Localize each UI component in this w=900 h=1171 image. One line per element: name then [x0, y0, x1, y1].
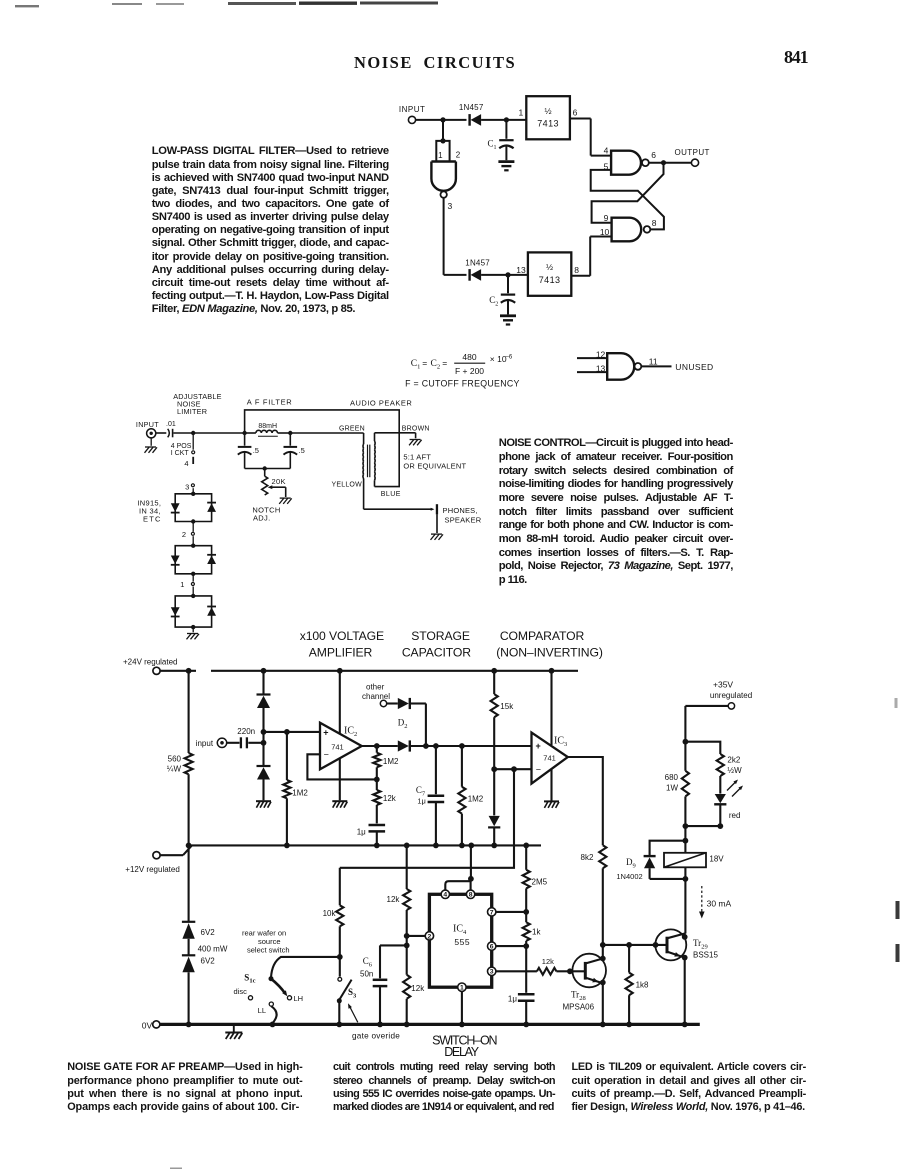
svg-text:–6: –6: [506, 354, 513, 360]
svg-text:=: =: [422, 358, 427, 368]
svg-text:x100 VOLTAGE: x100 VOLTAGE: [300, 629, 384, 643]
svg-text:1k: 1k: [532, 928, 541, 937]
svg-text:2: 2: [456, 151, 461, 160]
svg-text:1M2: 1M2: [383, 757, 399, 766]
svg-text:1M2: 1M2: [292, 789, 308, 798]
svg-text:1: 1: [438, 151, 443, 160]
svg-text:0V: 0V: [142, 1020, 153, 1030]
svg-text:560: 560: [168, 755, 182, 764]
svg-text:3: 3: [185, 482, 189, 491]
svg-text:channel: channel: [362, 692, 390, 701]
svg-text:input: input: [196, 739, 214, 748]
svg-text:+: +: [323, 727, 328, 737]
svg-text:6V2: 6V2: [201, 957, 216, 966]
svg-text:10: 10: [600, 227, 610, 237]
svg-text:6: 6: [490, 944, 494, 951]
svg-text:12k: 12k: [387, 895, 401, 904]
svg-text:2: 2: [428, 933, 432, 940]
svg-text:30 mA: 30 mA: [707, 898, 732, 908]
svg-text:555: 555: [454, 937, 470, 947]
svg-text:3: 3: [490, 969, 494, 976]
svg-text:2k2: 2k2: [727, 756, 740, 765]
svg-text:other: other: [366, 683, 385, 692]
svg-text:1μ: 1μ: [417, 797, 426, 806]
svg-text:.01: .01: [166, 421, 176, 428]
svg-text:BLUE: BLUE: [381, 491, 401, 498]
svg-text:8: 8: [469, 892, 473, 899]
svg-text:−: −: [324, 749, 329, 759]
svg-text:1M2: 1M2: [468, 795, 484, 804]
svg-text:IC4: IC4: [453, 924, 467, 937]
svg-text:+: +: [536, 741, 541, 751]
svg-text:12k: 12k: [383, 794, 397, 803]
svg-text:INPUT: INPUT: [136, 420, 159, 429]
svg-text:LL: LL: [258, 1006, 266, 1015]
svg-text:1N457: 1N457: [465, 258, 490, 267]
svg-text:1: 1: [518, 107, 523, 117]
svg-text:220n: 220n: [237, 727, 255, 736]
svg-text:12k: 12k: [542, 957, 554, 966]
svg-text:S1c: S1c: [244, 972, 255, 984]
svg-text:STORAGE: STORAGE: [411, 629, 470, 643]
svg-text:1N4002: 1N4002: [616, 872, 642, 881]
svg-text:12: 12: [596, 349, 606, 359]
svg-text:680: 680: [665, 773, 679, 782]
svg-text:5:1 AFT: 5:1 AFT: [403, 452, 431, 461]
svg-text:C2: C2: [431, 359, 441, 371]
svg-text:F + 200: F + 200: [455, 366, 484, 376]
svg-text:1k8: 1k8: [636, 981, 649, 990]
svg-text:1μ: 1μ: [357, 828, 366, 837]
svg-text:10k: 10k: [323, 909, 337, 918]
svg-text:× 10: × 10: [490, 354, 507, 364]
svg-text:18V: 18V: [709, 855, 724, 864]
svg-text:8: 8: [652, 218, 657, 228]
svg-text:=: =: [442, 358, 447, 368]
svg-text:13: 13: [596, 364, 606, 374]
svg-text:6V2: 6V2: [201, 928, 216, 937]
svg-text:400 mW: 400 mW: [198, 945, 228, 954]
svg-text:1: 1: [180, 580, 184, 589]
svg-text:select switch: select switch: [247, 946, 290, 955]
svg-text:LIMITER: LIMITER: [177, 407, 207, 416]
svg-text:BSS15: BSS15: [693, 950, 718, 959]
svg-text:6: 6: [573, 107, 578, 117]
svg-text:OUTPUT: OUTPUT: [675, 148, 710, 157]
svg-text:88mH: 88mH: [258, 423, 277, 430]
svg-text:I CKT: I CKT: [171, 450, 190, 457]
svg-text:ETC: ETC: [143, 515, 162, 524]
svg-text:C2: C2: [489, 295, 498, 308]
svg-text:red: red: [729, 811, 741, 820]
svg-text:7413: 7413: [537, 119, 559, 129]
svg-text:20K: 20K: [272, 477, 286, 486]
svg-text:2M5: 2M5: [532, 878, 548, 887]
svg-text:+24V regulated: +24V regulated: [123, 658, 178, 667]
svg-text:A F FILTER: A F FILTER: [247, 397, 293, 406]
svg-text:GREEN: GREEN: [339, 426, 365, 433]
svg-text:11: 11: [649, 357, 658, 367]
svg-text:Tr28: Tr28: [571, 990, 586, 1002]
svg-text:−: −: [536, 764, 541, 774]
svg-text:+12V regulated: +12V regulated: [125, 865, 180, 874]
svg-text:4: 4: [184, 459, 188, 468]
svg-text:7413: 7413: [539, 275, 561, 285]
svg-text:C1: C1: [411, 359, 421, 371]
svg-text:(NON–INVERTING): (NON–INVERTING): [496, 645, 603, 659]
svg-text:Tr29: Tr29: [693, 938, 708, 950]
svg-text:MPSA06: MPSA06: [563, 1003, 595, 1012]
svg-text:D2: D2: [398, 718, 408, 730]
svg-text:S3: S3: [348, 987, 357, 999]
svg-text:YELLOW: YELLOW: [332, 482, 363, 489]
svg-text:.5: .5: [253, 446, 259, 455]
svg-text:4: 4: [604, 145, 609, 155]
svg-text:disc: disc: [234, 987, 248, 996]
svg-text:6: 6: [651, 150, 656, 160]
svg-text:4: 4: [443, 892, 447, 899]
svg-text:9: 9: [604, 213, 609, 223]
svg-text:unregulated: unregulated: [710, 691, 752, 700]
svg-text:BROWN: BROWN: [402, 426, 430, 433]
svg-text:AUDIO PEAKER: AUDIO PEAKER: [350, 398, 412, 407]
svg-text:F = CUTOFF FREQUENCY: F = CUTOFF FREQUENCY: [405, 379, 520, 389]
svg-text:D9: D9: [626, 857, 636, 869]
svg-text:UNUSED: UNUSED: [675, 362, 713, 372]
svg-text:AMPLIFIER: AMPLIFIER: [309, 645, 373, 659]
svg-text:C1: C1: [488, 139, 497, 152]
svg-text:½: ½: [545, 106, 552, 116]
svg-text:741: 741: [543, 753, 556, 762]
svg-text:8k2: 8k2: [581, 853, 594, 862]
svg-text:15k: 15k: [500, 702, 514, 711]
svg-text:DELAY: DELAY: [444, 1045, 480, 1059]
svg-text:gate overide: gate overide: [352, 1032, 400, 1041]
svg-text:8: 8: [574, 265, 579, 275]
svg-text:½W: ½W: [727, 766, 742, 775]
svg-text:50n: 50n: [360, 970, 373, 979]
svg-text:LH: LH: [294, 994, 304, 1003]
svg-text:13: 13: [516, 265, 526, 275]
svg-text:ADJ.: ADJ.: [253, 514, 270, 523]
svg-text:4 POS: 4 POS: [171, 443, 192, 450]
svg-text:480: 480: [462, 352, 476, 362]
svg-text:IC3: IC3: [554, 736, 567, 749]
svg-text:1μ: 1μ: [508, 995, 517, 1004]
svg-text:CAPACITOR: CAPACITOR: [402, 645, 471, 659]
svg-text:.5: .5: [299, 446, 305, 455]
svg-text:IC2: IC2: [344, 726, 357, 739]
svg-text:¼W: ¼W: [167, 765, 182, 774]
svg-text:2: 2: [182, 530, 186, 539]
svg-text:SPEAKER: SPEAKER: [445, 516, 482, 525]
svg-text:½: ½: [546, 262, 553, 272]
svg-text:1N457: 1N457: [459, 103, 484, 112]
svg-text:1: 1: [460, 985, 464, 992]
svg-text:3: 3: [448, 201, 453, 211]
svg-text:1W: 1W: [666, 784, 678, 793]
svg-text:7: 7: [490, 909, 494, 916]
svg-text:COMPARATOR: COMPARATOR: [500, 629, 585, 643]
svg-text:PHONES,: PHONES,: [443, 506, 478, 515]
svg-text:+35V: +35V: [713, 680, 733, 690]
svg-text:C6: C6: [363, 956, 373, 968]
svg-text:OR EQUIVALENT: OR EQUIVALENT: [403, 462, 466, 471]
svg-text:741: 741: [331, 743, 344, 752]
svg-text:12k: 12k: [411, 984, 425, 993]
svg-text:INPUT: INPUT: [399, 105, 426, 114]
